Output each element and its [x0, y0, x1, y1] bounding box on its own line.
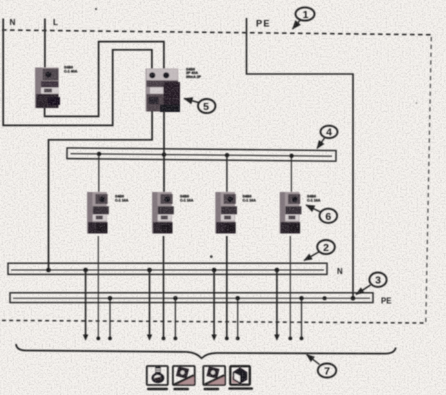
wire L bus to MCB3 [226, 155, 228, 192]
icon captions [147, 387, 253, 390]
wire L bus to MCB4 [290, 155, 292, 192]
callout 7 [307, 355, 337, 378]
enclosure dashed boundary right [426, 37, 432, 322]
wire L bus to MCB1 [98, 155, 100, 192]
wire N incoming: down left edge, right, up, right to RCD left pole [3, 19, 152, 126]
MCB3 [215, 192, 237, 234]
MCB4 [280, 192, 302, 234]
breaker Q1 (main 1-pole) [35, 68, 60, 109]
callout 2 [304, 240, 335, 261]
junction dots on PE bus [108, 296, 356, 301]
callout 5 [184, 99, 215, 114]
scan specks [95, 8, 418, 258]
busbar 2 (N bus) [8, 263, 327, 274]
icon box 2 (sockets) [173, 366, 195, 385]
wire RCD N output to N busbar [49, 111, 153, 270]
junction dots on N bus [46, 268, 279, 273]
enclosure dashed boundary bottom [2, 320, 426, 323]
wire L from Q1 bottom to RCD right pole [45, 42, 164, 117]
output wire end arrows [83, 335, 304, 341]
wire RCD L output through L busbar to MCB2 [163, 111, 165, 193]
icon box 1 (lighting) [147, 366, 168, 385]
MCB1 [87, 192, 109, 234]
N taps down [85, 270, 87, 337]
enclosure dashed boundary top [2, 30, 433, 35]
icon box 4 (stove) [230, 366, 250, 385]
circuit L wires from MCB bottoms to outputs [97, 236, 99, 338]
MCB2 [152, 192, 174, 234]
busbar 4 (L distribution bus) [67, 148, 336, 161]
RCD U5 (2-pole) body [146, 69, 180, 113]
callout 3 [356, 273, 387, 295]
callout 1 [293, 7, 315, 29]
PE taps down [109, 298, 111, 336]
wire L incoming: down into breaker Q1 [44, 19, 46, 69]
junction dots on L bus [97, 152, 294, 158]
busbar 3 (PE bus) [10, 293, 373, 303]
callout 6 [306, 205, 337, 223]
callout 4 [317, 126, 338, 149]
wire PE incoming: from PE label down, right, down to PE busbar [247, 18, 354, 298]
brace (callout 7 target) [16, 344, 396, 358]
icon box 3 (sockets) [203, 366, 225, 385]
